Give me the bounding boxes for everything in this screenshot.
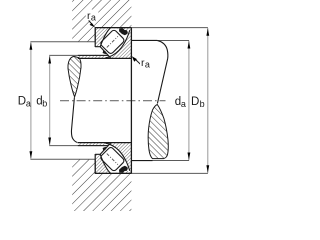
- dimension line D_b with arrows: [206, 28, 209, 173]
- bearing top: raceway arc SE (shaft washer): [105, 30, 130, 58]
- bearing top: washer lower-left profile lines: [95, 47, 111, 59]
- shaft bottom-left break outline: [71, 98, 77, 143]
- bearing top: roller (white rounded rect rotated): [100, 29, 126, 55]
- bearing top: cage dark piece NE: [119, 28, 128, 35]
- dimension line D_a with arrows: [30, 42, 33, 159]
- bearing top: washer fine hatch box: [95, 28, 131, 59]
- shaft bottom-right step surface (dark overlap): [131, 160, 152, 162]
- extension line d_b bottom: [49, 145, 108, 147]
- svg-text:D: D: [191, 96, 199, 108]
- shaft shoulder section blob top-left: [68, 56, 81, 96]
- label r_a top (white background): [86, 10, 99, 23]
- housing top shoulder face vertical: [94, 28, 96, 42]
- housing bottom shoulder face vertical: [94, 159, 96, 173]
- extension line D_a bottom / housing top edge: [30, 158, 95, 160]
- bearing bottom outline: band bottom line: [78, 145, 108, 147]
- bearing bottom: washer fine hatch box: [95, 143, 131, 174]
- washer back face / shaft step face full vertical line: [130, 28, 132, 174]
- shaft top-right break outline (fillet + taper): [157, 40, 168, 103]
- svg-text:a: a: [145, 60, 150, 70]
- bearing top outline: washer top face: [95, 27, 131, 29]
- bearing bottom: shaft washer thin band: [78, 143, 132, 146]
- svg-text:a: a: [91, 12, 96, 22]
- svg-text:b: b: [200, 99, 205, 109]
- bearing bottom: white roller channel: [95, 143, 130, 173]
- label r_a right: [140, 57, 152, 70]
- svg-text:a: a: [26, 98, 31, 108]
- leader r_a right with arrowhead: [132, 56, 142, 65]
- extension line d_b top: [49, 54, 108, 56]
- bearing bottom: roller: [100, 146, 126, 172]
- bearing top outline: seat line: [78, 57, 132, 59]
- svg-text:a: a: [181, 99, 186, 109]
- bearing bottom outline: washer bottom face: [95, 172, 131, 174]
- extension line D_b top / washer back face top: [95, 27, 208, 29]
- centerline (dash-dot): [60, 100, 166, 102]
- bearing bottom: cage dark piece NW: [103, 147, 107, 151]
- svg-text:D: D: [18, 95, 26, 107]
- bearing bottom outline: washer left face: [94, 154, 96, 174]
- bearing bottom: raceway arc NE: [105, 143, 130, 171]
- bearing bottom: raceway arc SW: [100, 154, 110, 173]
- svg-text:b: b: [42, 98, 47, 108]
- bearing top: cage dark piece SW: [103, 50, 107, 54]
- dimension line d_a with arrows: [188, 41, 191, 160]
- dimension line d_b with arrows: [48, 56, 51, 145]
- housing section top (hatched block): [72, 0, 131, 42]
- extension line D_b bottom / washer back face bottom: [95, 172, 208, 174]
- bearing top: white roller channel: [95, 28, 130, 58]
- shaft shoulder section blob bottom-right: [148, 105, 168, 159]
- extension line d_a bottom / shaft step surface: [131, 160, 189, 162]
- bearing bottom: cage dark piece SE: [119, 166, 128, 173]
- bearing bottom outline: seat line: [78, 142, 132, 144]
- extension line d_a top / shaft surface: [131, 39, 189, 41]
- extension line D_a top / housing bottom edge: [30, 41, 95, 43]
- shaft top-right surface (dark overlap): [131, 39, 157, 41]
- bearing top outline: band top line: [78, 54, 108, 56]
- housing section bottom (hatched block): [72, 159, 131, 211]
- leader r_a top with arrowhead: [88, 19, 96, 27]
- bearing top: shaft washer thin band: [78, 55, 132, 58]
- bearing bottom: washer upper-left profile lines: [95, 143, 111, 155]
- bearing top: raceway arc NW (housing washer): [100, 28, 110, 47]
- bearing top outline: housing shoulder / washer left face: [94, 27, 96, 47]
